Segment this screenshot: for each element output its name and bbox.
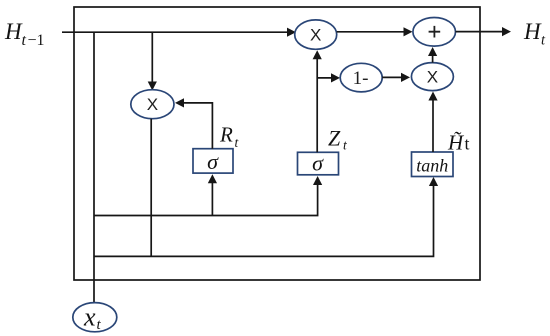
arrowhead into plus left <box>404 27 413 36</box>
svg-text:X: X <box>427 67 438 86</box>
svg-text:H: H <box>523 19 542 44</box>
arrowhead into plus bottom <box>428 47 437 56</box>
ellipse 1- <box>340 63 382 92</box>
label H_{t-1} <box>4 19 45 49</box>
arrowhead into sigma R box bottom <box>208 174 217 183</box>
svg-text:Z: Z <box>328 126 341 151</box>
multiply ellipse Xz (update gate) <box>295 20 337 49</box>
svg-text:H: H <box>4 19 23 44</box>
arrowhead into sigma Z box bottom <box>313 176 322 185</box>
wire sigma feed line (bottom h1) <box>94 181 318 216</box>
svg-text:t: t <box>235 135 240 150</box>
wire branch up to sigma R box <box>211 179 213 216</box>
arrowhead into multiply (z) ellipse left <box>287 28 296 37</box>
wire branch to 1- ellipse <box>317 77 335 79</box>
wire 1- to Xh <box>382 76 404 78</box>
label H_t <box>523 19 546 49</box>
wire Xz to plus <box>337 31 407 33</box>
GRU cell outer box <box>74 7 480 280</box>
wire Xh up to plus <box>432 52 434 63</box>
wire output H_t <box>456 31 507 33</box>
svg-text:t: t <box>343 138 348 153</box>
svg-text:t: t <box>22 32 27 49</box>
label Z_t <box>328 126 348 153</box>
ellipse x_t input <box>73 303 117 334</box>
arrowhead into multiply (r) top <box>148 82 157 91</box>
svg-text:x: x <box>83 303 96 332</box>
arrowhead into Xz bottom <box>313 50 322 59</box>
svg-text:t: t <box>541 33 546 49</box>
svg-text:X: X <box>310 25 321 44</box>
wire vertical x_t / H branch at x=94 <box>93 32 95 302</box>
wire tanh feed line (bottom h2) <box>94 181 434 256</box>
svg-text:σ: σ <box>312 151 324 176</box>
svg-text:H̃: H̃ <box>447 131 465 155</box>
wire H_{t-1} input line <box>62 31 288 33</box>
tanh box <box>412 152 454 177</box>
wire sigma R output up and left to Xr <box>180 103 213 149</box>
sigma box Z <box>298 151 339 176</box>
label R_t <box>219 123 240 151</box>
wire sigma Z output up to Xz <box>316 55 318 153</box>
svg-text:1-: 1- <box>353 68 369 89</box>
svg-text:t: t <box>465 134 470 154</box>
arrowhead into Xr right <box>175 98 184 107</box>
arrowhead into Xh left <box>401 73 410 82</box>
svg-text:tanh: tanh <box>416 156 448 176</box>
multiply ellipse Xr (reset gate) <box>131 90 174 119</box>
plus ellipse <box>413 18 456 47</box>
svg-text:X: X <box>147 95 158 114</box>
sigma box R <box>193 149 233 174</box>
svg-text:R: R <box>219 123 233 147</box>
wire tanh output up to Xh <box>432 96 434 152</box>
arrowhead into Xh bottom <box>428 92 437 101</box>
arrowhead into tanh box bottom <box>429 177 438 186</box>
multiply ellipse Xh (candidate) <box>411 63 453 91</box>
wire H branch down to multiply (r) <box>151 32 153 82</box>
label H~t <box>447 131 470 155</box>
svg-text:σ: σ <box>207 149 219 174</box>
arrowhead output <box>502 27 511 36</box>
wire Xr output down to tanh feed line <box>150 119 152 257</box>
arrowhead into 1- left <box>331 73 340 82</box>
svg-text:−1: −1 <box>28 32 45 49</box>
